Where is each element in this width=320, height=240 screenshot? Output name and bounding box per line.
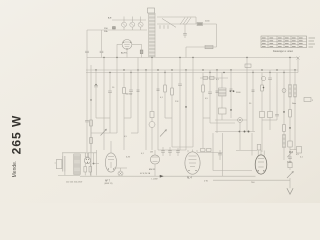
wire rail x240: [239, 122, 241, 131]
capacitor C6: [85, 120, 89, 122]
capacitor C19 box: [304, 98, 311, 102]
svg-text:2 M: 2 M: [175, 101, 179, 103]
node x290 b: [289, 151, 291, 153]
wire link right: [290, 149, 297, 151]
wire volume line: [91, 132, 117, 134]
coil L1 winding ladder: [149, 13, 155, 56]
wire lamp feed: [114, 167, 127, 169]
wire y131.5: [215, 131, 255, 133]
capacitor C8: [108, 90, 112, 92]
wire T1 top: [62, 152, 97, 154]
node rectifier out: [93, 163, 95, 165]
wire y152.5 right: [197, 152, 223, 154]
wire rail x253: [252, 70, 254, 132]
wire R2 down: [185, 47, 187, 58]
wire rail x88: [90, 65, 92, 100]
wire x252 drop: [251, 133, 253, 156]
wire rail x290: [289, 58, 291, 85]
resistor R12: [260, 112, 265, 118]
wire y133 b: [131, 132, 138, 134]
wire y123: [210, 122, 235, 124]
wire link y118 c: [165, 117, 172, 119]
wire bottom bus: [80, 175, 230, 177]
tube V2 AF7: [105, 153, 116, 172]
resistor R10 on bus: [245, 64, 251, 67]
wire rail x277: [276, 73, 278, 115]
label T2: [230, 90, 232, 92]
capacitor C16: [176, 150, 180, 152]
capacitor C22: [100, 50, 104, 52]
field coil L6: [294, 85, 297, 98]
wire bus heater upper: [86, 69, 298, 71]
svg-text:6,3V: 6,3V: [126, 157, 131, 159]
resistor R20: [207, 149, 212, 152]
indicator lamp: [238, 118, 243, 123]
capacitor C12: [268, 77, 272, 79]
resistor R9: [202, 85, 205, 92]
wire rail x270: [269, 70, 271, 78]
svg-text:L 20W: L 20W: [152, 179, 158, 181]
resistor R18: [89, 167, 92, 173]
resistor R23: [297, 147, 302, 154]
tube V3 output AL4: [185, 152, 200, 174]
mains input box: [56, 160, 62, 169]
potentiometer P2 arrow: [101, 129, 107, 136]
wire rail x88 lower: [90, 100, 92, 176]
capacitor C17: [218, 153, 222, 155]
capacitor C10: [178, 83, 182, 85]
svg-text:110 125 150 220V: 110 125 150 220V: [66, 182, 83, 184]
wire rail x138: [137, 58, 139, 134]
band switch S1 arm: [162, 19, 176, 28]
resistor R14: [283, 125, 286, 132]
capacitor C11: [208, 91, 212, 93]
tube V1 triode-hexode: [122, 40, 132, 50]
wire x213 drop: [212, 133, 214, 171]
wire rail x222: [221, 73, 223, 89]
wire rail x165: [164, 70, 166, 85]
resistor R22: [288, 141, 292, 147]
trimmer capacitor C1: [122, 22, 127, 27]
svg-text:4V 6,3V 2A: 4V 6,3V 2A: [140, 172, 151, 175]
wire tuning bottom: [87, 29, 147, 31]
tube V4 rectifier: [255, 155, 267, 174]
capacitor C7: [94, 85, 98, 87]
table side notes: [309, 38, 316, 47]
node x241: [244, 131, 246, 133]
node x284: [283, 111, 285, 113]
resistor R3: [140, 50, 143, 54]
band switch S1 contacts: [160, 25, 168, 29]
resistor R13: [268, 112, 273, 118]
wire rail x247: [246, 58, 248, 132]
node x290: [289, 127, 291, 129]
choke L4: [219, 108, 227, 114]
wire V5 down b: [89, 163, 91, 166]
potentiometer P5 arrow: [287, 151, 293, 157]
potentiometer P4 arrow: [287, 171, 293, 178]
node x88: [90, 99, 92, 101]
magic eye V6: [150, 155, 159, 164]
wire tuning top: [112, 19, 146, 21]
antenna mark: [297, 57, 300, 60]
node x231: [230, 70, 232, 110]
wire y147: [172, 146, 193, 148]
coil L1 former box: [148, 8, 155, 13]
wire gang stubs: [124, 17, 141, 21]
svg-text:Fassungen v. unten: Fassungen v. unten: [273, 50, 294, 53]
wire rail x203: [202, 73, 204, 86]
wire AVC top run: [187, 16, 196, 18]
wire link y120 e: [262, 119, 277, 121]
capacitor C27: [252, 89, 255, 91]
wire V5 down a: [84, 163, 86, 166]
resistor R11: [261, 85, 264, 91]
svg-text:50 000: 50 000: [126, 94, 133, 96]
wire IF line: [186, 46, 217, 48]
svg-text:AL 4: AL 4: [187, 177, 192, 180]
wire to detector: [203, 23, 217, 25]
wire rail x110: [109, 73, 111, 91]
svg-text:2 W: 2 W: [204, 181, 208, 183]
wire y150.5: [236, 150, 257, 152]
svg-text:Netz: Netz: [292, 102, 296, 105]
node x96: [95, 84, 97, 86]
capacitor C5: [183, 33, 187, 35]
coupling coil L2: [150, 112, 154, 118]
svg-text:(EBF 11): (EBF 11): [105, 183, 113, 185]
wire y78 link: [200, 77, 228, 79]
capacitor C14: [161, 150, 165, 152]
trimmer capacitor C2: [130, 22, 135, 27]
wire rail x193: [192, 58, 194, 148]
wire y170: [213, 170, 252, 172]
tube table: [261, 36, 307, 48]
wire V6 bottom: [154, 165, 156, 177]
wire grid row: [158, 149, 186, 151]
wire V1 right: [132, 43, 142, 45]
wire smoothing: [93, 153, 95, 164]
wire bus heater lower: [86, 72, 298, 74]
wire bus anode supply: [87, 57, 298, 59]
arrow to speaker: [160, 175, 163, 177]
svg-text:A E: A E: [108, 17, 112, 20]
potentiometer P3 arrow: [160, 130, 167, 137]
wire detector link: [215, 119, 247, 121]
wire rail x131: [130, 70, 132, 90]
capacitor C26: [230, 88, 233, 90]
wire V4 pins: [258, 150, 264, 156]
resistor R21: [257, 145, 261, 151]
wire rail x101: [101, 30, 103, 51]
rectifier tube V5: [84, 157, 90, 163]
wire rail x284: [283, 70, 285, 112]
wire antenna rail: [86, 30, 88, 51]
capacitor C21: [85, 50, 89, 52]
capacitor C20: [85, 153, 89, 157]
wire V2 top: [110, 141, 112, 153]
svg-text:AF 7: AF 7: [105, 179, 111, 182]
potentiometer P1 hatch: [180, 18, 191, 25]
resistor R16: [289, 110, 292, 118]
wire V1 cathode: [126, 49, 128, 57]
resistor R24: [203, 76, 208, 79]
wire rail x262: [261, 73, 263, 86]
resistor R2 hatched: [205, 45, 213, 48]
field coil L5: [289, 85, 292, 98]
wire rail x186: [185, 70, 187, 107]
wire link y118 b: [124, 117, 131, 119]
wire rail x298: [297, 58, 299, 73]
capacitor C15: [168, 150, 172, 152]
resistor R1: [197, 23, 203, 26]
resistor R25: [210, 76, 215, 79]
wire rail x180: [179, 58, 181, 84]
wire rail x217: [216, 70, 218, 133]
wire oscillator mid: [157, 23, 196, 25]
capacitor C18: [288, 156, 292, 158]
ground arrow: [287, 188, 293, 194]
table cell text: [262, 38, 303, 47]
wire anode drop: [222, 133, 224, 176]
detector diode circle: [261, 76, 265, 80]
resistor R7: [164, 85, 167, 92]
power transformer T1 winding: [74, 154, 80, 175]
resistor R19: [201, 149, 206, 152]
dial lamp: [118, 171, 123, 176]
wire rail x96: [95, 70, 97, 84]
wire grid stub: [116, 44, 118, 57]
svg-text:Mende.: Mende.: [12, 161, 18, 178]
resistor R5: [90, 138, 93, 144]
resistor R15 hatched: [283, 135, 286, 148]
power transformer T1 plates: [63, 156, 65, 172]
capacitor C9: [129, 89, 133, 91]
wire rail x117: [116, 58, 118, 134]
wire rail x124: [123, 73, 125, 88]
wire rail x158: [157, 73, 159, 151]
wire V5 anode: [87, 153, 89, 158]
wire V6 top: [154, 150, 156, 155]
wire rail x172: [171, 73, 173, 89]
coupling capacitor dark: [113, 27, 116, 29]
svg-text:265 W: 265 W: [10, 115, 24, 155]
wire rail x96 bottom: [96, 150, 98, 175]
capacitor C25: [216, 90, 219, 92]
trimmer capacitor C3: [138, 22, 143, 27]
resistor R4: [90, 120, 93, 126]
wire oscillator top: [157, 16, 187, 18]
capacitor C13: [275, 114, 279, 116]
wire link y118 d: [203, 117, 210, 119]
oscillator coil L3: [149, 122, 155, 128]
wire return line: [213, 179, 290, 181]
svg-text:ACH 1: ACH 1: [121, 52, 128, 55]
capacitor C24: [157, 88, 160, 90]
resistor R17: [84, 167, 87, 173]
resistor R26: [288, 163, 292, 168]
wire T1 bottom: [58, 174, 80, 176]
wire rail x152: [151, 58, 153, 112]
svg-text:1M: 1M: [150, 152, 153, 154]
resistor R8: [171, 88, 174, 95]
wire rail x104: [103, 58, 105, 151]
node x186: [185, 106, 187, 108]
wire rail x210: [209, 70, 211, 92]
wire rail x146: [145, 70, 147, 150]
resistor R6: [123, 88, 126, 94]
capacitor C23: [137, 89, 140, 91]
wire V1 left: [117, 43, 122, 45]
node volume taps: [239, 131, 241, 133]
node bus junctions: [103, 57, 104, 58]
screen grid cap: [282, 89, 286, 93]
wire y178: [230, 175, 256, 177]
output transformer T2 primary: [219, 88, 227, 96]
wire V3 pins: [188, 150, 197, 153]
svg-text:EM 11: EM 11: [149, 169, 156, 171]
wire link y118 a: [96, 117, 110, 119]
